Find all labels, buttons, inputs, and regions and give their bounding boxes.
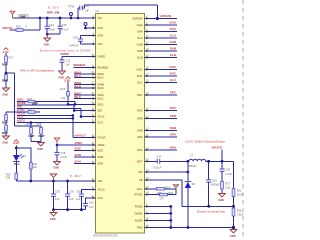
svg-text:10.0k: 10.0k bbox=[237, 193, 244, 197]
svg-text:8...75 V: 8...75 V bbox=[48, 5, 60, 9]
pin numbers left bbox=[91, 15, 94, 198]
resistor R27 2.61 damping bbox=[221, 182, 224, 190]
svg-text:PGND: PGND bbox=[135, 205, 143, 209]
svg-text:SOB: SOB bbox=[98, 155, 104, 159]
capacitor C38 2.2uF output bbox=[221, 161, 223, 169]
LED D1 Red bbox=[15, 148, 17, 155]
ground under R27 bbox=[219, 194, 226, 198]
svg-text:SPB: SPB bbox=[137, 116, 143, 120]
svg-text:VCP: VCP bbox=[98, 26, 104, 30]
svg-text:DGND: DGND bbox=[135, 211, 143, 215]
wire RCL/RTSD join bbox=[175, 189, 177, 195]
svg-text:330uH: 330uH bbox=[189, 164, 197, 168]
node VDRAIN bbox=[156, 17, 159, 20]
wire VCC bbox=[86, 198, 96, 204]
svg-text:ENABLE: ENABLE bbox=[74, 63, 86, 67]
svg-text:ENABLE: ENABLE bbox=[98, 66, 109, 70]
flag GND at RCL bbox=[173, 185, 178, 189]
node C24 top bbox=[46, 17, 49, 20]
node C26 top bbox=[59, 17, 62, 20]
wire DVDD bbox=[62, 56, 96, 58]
svg-text:1uF: 1uF bbox=[69, 197, 74, 201]
pin direction arrows left side bbox=[93, 17, 96, 199]
svg-text:DNP: DNP bbox=[2, 63, 8, 67]
svg-text:DVDD: DVDD bbox=[98, 55, 106, 59]
svg-text:C25: C25 bbox=[66, 59, 71, 63]
svg-text:GLC: GLC bbox=[137, 81, 143, 85]
svg-text:VREF: VREF bbox=[98, 143, 106, 147]
svg-text:GHC: GHC bbox=[137, 68, 143, 72]
wire cap ground bus bbox=[54, 209, 86, 211]
wire DNP bottoms bbox=[31, 141, 41, 143]
svg-text:SCLK: SCLK bbox=[98, 115, 105, 119]
svg-text:DNP: DNP bbox=[29, 134, 35, 138]
diode D2 schottky bbox=[185, 181, 191, 183]
svg-text:12.0V, 360mA Output Design: 12.0V, 360mA Output Design bbox=[185, 140, 225, 144]
svg-text:C24: C24 bbox=[49, 23, 54, 27]
svg-text:SHA: SHA bbox=[137, 30, 143, 34]
svg-text:INLA: INLA bbox=[98, 76, 104, 80]
svg-text:C34: C34 bbox=[212, 178, 217, 182]
capacitor C33 1uF bbox=[53, 181, 55, 194]
svg-text:nFAULT: nFAULT bbox=[75, 133, 86, 137]
svg-text:PAD: PAD bbox=[137, 225, 142, 229]
svg-text:GLC: GLC bbox=[170, 78, 177, 82]
resistor R19 DNP pulldown bbox=[5, 75, 8, 82]
svg-text:0.047uF: 0.047uF bbox=[69, 44, 79, 48]
svg-text:VBUCK: VBUCK bbox=[2, 26, 14, 30]
svg-text:R26: R26 bbox=[237, 209, 242, 213]
svg-text:INHB: INHB bbox=[98, 83, 105, 87]
svg-text:SW: SW bbox=[138, 170, 143, 174]
wire ENABLE bbox=[74, 67, 96, 69]
capacitor C41 1uF on VCC bbox=[83, 203, 88, 205]
svg-text:SPC: SPC bbox=[137, 93, 143, 97]
capacitor C39 1uF on VGLS bbox=[79, 193, 84, 195]
wire CPH bbox=[81, 35, 96, 37]
svg-text:5600pF: 5600pF bbox=[211, 183, 220, 187]
svg-text:SPA: SPA bbox=[137, 135, 142, 139]
wire VDRAIN riser from C27 rail bbox=[156, 5, 158, 19]
svg-text:GHB: GHB bbox=[169, 40, 177, 44]
label DNP on input jumper bbox=[19, 15, 28, 19]
node LED top bbox=[15, 147, 18, 150]
op-amp U2 gate driver IC body bbox=[96, 14, 145, 234]
svg-text:VGLS: VGLS bbox=[98, 188, 105, 192]
svg-text:INHC: INHC bbox=[98, 93, 105, 97]
svg-text:CPH: CPH bbox=[98, 34, 104, 38]
svg-text:GND: GND bbox=[218, 198, 224, 202]
svg-text:GLA: GLA bbox=[170, 34, 177, 38]
svg-text:SNB: SNB bbox=[137, 128, 143, 132]
svg-text:Red: Red bbox=[14, 162, 20, 166]
svg-text:1uF: 1uF bbox=[76, 197, 81, 201]
wire output rail corner down bbox=[233, 161, 235, 188]
svg-text:SHC: SHC bbox=[137, 74, 143, 78]
svg-text:SPC: SPC bbox=[170, 91, 177, 95]
svg-text:CPL: CPL bbox=[98, 42, 104, 46]
svg-text:BST: BST bbox=[137, 159, 143, 163]
power flag VM input bbox=[10, 11, 15, 18]
svg-text:SOC: SOC bbox=[98, 149, 104, 153]
resistor R22 10.0k feedback top bbox=[232, 189, 235, 197]
resistor R19 1.0k pullup bbox=[67, 92, 70, 96]
node C27 left bbox=[77, 17, 80, 20]
wire cap bottoms bbox=[47, 33, 60, 35]
3.3V supply for mode divider bbox=[4, 48, 8, 50]
svg-text:INLC: INLC bbox=[98, 97, 104, 101]
resistor R20 330 bbox=[15, 173, 18, 180]
wire FB pin elbow bbox=[145, 180, 183, 206]
svg-text:SNC: SNC bbox=[137, 109, 143, 113]
wire mode bus elbow bbox=[15, 125, 42, 127]
wire VGLS bbox=[81, 190, 95, 194]
svg-text:SHC: SHC bbox=[170, 72, 177, 76]
IC left pin names bbox=[98, 16, 109, 200]
svg-text:GND: GND bbox=[44, 43, 50, 47]
svg-text:TP16: TP16 bbox=[68, 5, 75, 9]
svg-text:C36: C36 bbox=[69, 190, 74, 194]
svg-text:VDRAIN: VDRAIN bbox=[132, 17, 142, 21]
svg-text:GND: GND bbox=[230, 234, 236, 238]
capacitor C24 10uF bbox=[46, 18, 48, 26]
IC right pin names bbox=[132, 17, 143, 230]
svg-text:DRV8353RSRGZR: DRV8353RSRGZR bbox=[93, 233, 118, 237]
page boundary dashed line bbox=[242, 0, 244, 239]
svg-text:GND: GND bbox=[2, 141, 8, 145]
ground bottom-left block bbox=[50, 210, 57, 216]
svg-text:VBUCK: VBUCK bbox=[212, 146, 224, 150]
wire PAD / bottom ground bus bbox=[145, 227, 234, 229]
svg-text:2.61: 2.61 bbox=[225, 186, 231, 190]
wire to R21 bbox=[16, 148, 31, 163]
svg-text:0.1uF: 0.1uF bbox=[61, 155, 68, 159]
wire PGND bbox=[145, 206, 171, 208]
node VM/VBUCK junction bbox=[39, 17, 42, 20]
svg-text:FB: FB bbox=[139, 178, 143, 182]
svg-text:U2: U2 bbox=[96, 9, 100, 13]
svg-text:DNP: DNP bbox=[39, 134, 45, 138]
capacitor C25 1uF on DVDD bbox=[61, 57, 63, 61]
svg-text:C30: C30 bbox=[73, 36, 78, 40]
capacitor C36 1uF bbox=[67, 181, 69, 194]
flag GND on VIN row bbox=[50, 174, 56, 181]
svg-text:RT/SD: RT/SD bbox=[134, 193, 142, 197]
svg-text:GHB: GHB bbox=[137, 43, 143, 47]
wire mode to bus riser bbox=[6, 72, 15, 74]
wire C27 to VDRAIN riser bbox=[82, 5, 157, 8]
svg-text:0.1uF: 0.1uF bbox=[62, 28, 69, 32]
ground under C24 bbox=[44, 34, 51, 41]
svg-text:C37: C37 bbox=[157, 155, 162, 159]
wire ground riser bbox=[170, 207, 172, 228]
wire DGND bbox=[145, 212, 171, 214]
svg-text:R27: R27 bbox=[225, 182, 230, 186]
ground under C25 bbox=[59, 71, 66, 75]
svg-text:GND: GND bbox=[50, 217, 56, 221]
svg-text:DRV_VM: DRV_VM bbox=[47, 10, 60, 14]
node SW/BST bbox=[187, 160, 190, 163]
node mode divider bbox=[5, 72, 8, 75]
svg-text:SDI: SDI bbox=[98, 109, 103, 113]
3.3V supply LED bbox=[14, 140, 18, 142]
ground under left DNP column bbox=[3, 136, 10, 140]
svg-text:SNA: SNA bbox=[170, 146, 177, 150]
wire CPL bbox=[81, 43, 96, 45]
svg-text:27k: 27k bbox=[160, 197, 165, 201]
wire VBUCK riser bbox=[39, 18, 41, 30]
resistor R29 27k on RT/SD bbox=[145, 194, 160, 196]
svg-text:DVDD: DVDD bbox=[61, 52, 69, 56]
svg-text:1uF: 1uF bbox=[66, 63, 71, 67]
svg-text:1uF: 1uF bbox=[85, 8, 90, 12]
svg-text:C41: C41 bbox=[89, 201, 94, 205]
svg-text:SPB: SPB bbox=[170, 114, 177, 118]
test point TP17 on VCP bbox=[84, 23, 87, 26]
capacitor C30 0.047uF between CPH/CPL bbox=[80, 36, 82, 40]
svg-text:DNP: DNP bbox=[2, 131, 8, 135]
svg-text:1uF: 1uF bbox=[55, 197, 60, 201]
svg-text:10uF: 10uF bbox=[49, 28, 55, 32]
svg-text:10k: 10k bbox=[33, 165, 38, 169]
svg-text:GHC: GHC bbox=[169, 65, 177, 69]
ground bottom right bbox=[230, 230, 237, 234]
node FB bbox=[232, 205, 235, 208]
3.3V supply SDO pullup bbox=[66, 77, 70, 79]
svg-text:R22: R22 bbox=[237, 189, 242, 193]
svg-text:Ensure minimal loop: Ensure minimal loop bbox=[197, 210, 225, 214]
svg-text:3.3V: 3.3V bbox=[13, 141, 19, 145]
wire AGND bbox=[145, 219, 171, 221]
capacitor C26 0.1uF bbox=[59, 18, 61, 26]
wire nFAULT riser bbox=[72, 115, 74, 137]
svg-text:R17: R17 bbox=[9, 56, 14, 60]
wire VCP pin bbox=[84, 27, 96, 29]
resistor R32 DNP left column bbox=[5, 125, 8, 131]
capacitor C27 1uF (VCP flying) bbox=[77, 8, 79, 18]
pin numbers right bbox=[146, 16, 149, 228]
svg-text:DNP: DNP bbox=[2, 121, 8, 125]
resistor R23 107k on RCL bbox=[145, 188, 157, 190]
svg-text:C28: C28 bbox=[61, 151, 66, 155]
svg-text:AGND: AGND bbox=[135, 218, 143, 222]
ground under C28 bbox=[54, 162, 61, 166]
resistor R26 2.61k feedback bottom bbox=[232, 208, 235, 216]
svg-text:SNC: SNC bbox=[170, 106, 177, 110]
svg-text:INLB: INLB bbox=[98, 86, 104, 90]
svg-text:SOA: SOA bbox=[98, 162, 104, 166]
svg-text:GND: GND bbox=[37, 147, 43, 151]
svg-text:SHB: SHB bbox=[137, 49, 143, 53]
svg-text:C26: C26 bbox=[62, 23, 67, 27]
svg-text:GLB: GLB bbox=[170, 53, 177, 57]
wire VM rail bbox=[13, 17, 96, 19]
capacitor C28 0.1uF on VREF bbox=[56, 145, 58, 153]
svg-text:D1: D1 bbox=[23, 154, 27, 158]
svg-text:2.61k: 2.61k bbox=[237, 213, 244, 217]
resistor R31 DNP left column bbox=[6, 111, 17, 113]
wire FB line bbox=[182, 205, 234, 207]
svg-text:GND: GND bbox=[53, 165, 59, 169]
svg-text:GND: GND bbox=[2, 93, 8, 97]
wire VREF bbox=[57, 144, 96, 146]
svg-text:R35: R35 bbox=[37, 122, 42, 126]
svg-text:1.0k: 1.0k bbox=[60, 96, 66, 100]
capacitor C34 5600pF feedforward bbox=[208, 161, 210, 180]
resistor R17 DNP pullup bbox=[5, 53, 7, 56]
resistor R21 10k bbox=[29, 163, 32, 170]
svg-text:SPA: SPA bbox=[170, 133, 177, 137]
svg-text:VCC: VCC bbox=[98, 196, 104, 200]
svg-text:R19: R19 bbox=[60, 87, 65, 91]
svg-text:SNA: SNA bbox=[137, 148, 143, 152]
pin direction arrows right side bbox=[145, 17, 148, 228]
svg-text:2.2uF: 2.2uF bbox=[225, 172, 232, 176]
svg-text:C33: C33 bbox=[55, 190, 60, 194]
svg-text:GHA: GHA bbox=[169, 21, 177, 25]
node L1 out bbox=[207, 160, 210, 163]
svg-text:SDO: SDO bbox=[98, 102, 104, 106]
wire VIN row bbox=[16, 180, 95, 182]
svg-text:DNP: DNP bbox=[2, 79, 8, 83]
svg-text:0.01uF: 0.01uF bbox=[154, 165, 162, 169]
svg-text:SCS: SCS bbox=[98, 121, 104, 125]
svg-text:R16: R16 bbox=[16, 25, 21, 29]
svg-text:5 - 30 V: 5 - 30 V bbox=[70, 174, 82, 178]
svg-text:FAULT: FAULT bbox=[98, 135, 107, 139]
ground under R34/R35 bbox=[38, 143, 45, 147]
svg-text:INHA: INHA bbox=[98, 72, 105, 76]
svg-text:SHA: SHA bbox=[170, 27, 177, 31]
wire mode riser down bbox=[14, 73, 16, 126]
svg-text:C38: C38 bbox=[225, 168, 230, 172]
svg-text:GLB: GLB bbox=[137, 56, 143, 60]
svg-text:HW vs SPI Configuration: HW vs SPI Configuration bbox=[20, 69, 54, 73]
wire nFAULT bbox=[73, 136, 96, 138]
svg-text:330: 330 bbox=[6, 176, 11, 180]
svg-text:C39: C39 bbox=[76, 190, 81, 194]
svg-text:SNB: SNB bbox=[170, 126, 177, 130]
svg-text:RCL: RCL bbox=[137, 187, 143, 191]
flag VREF bbox=[54, 138, 59, 145]
svg-text:VIN: VIN bbox=[98, 179, 103, 183]
svg-text:VDRAIN: VDRAIN bbox=[160, 14, 172, 18]
svg-text:GLA: GLA bbox=[137, 36, 143, 40]
svg-text:GHA: GHA bbox=[137, 23, 143, 27]
ground under R19 bbox=[3, 88, 10, 92]
svg-text:3.3V: 3.3V bbox=[64, 79, 70, 83]
svg-text:1uF: 1uF bbox=[89, 205, 94, 209]
svg-text:D2: D2 bbox=[192, 182, 196, 186]
wire SW bbox=[145, 171, 188, 173]
svg-text:SHB: SHB bbox=[170, 47, 177, 51]
